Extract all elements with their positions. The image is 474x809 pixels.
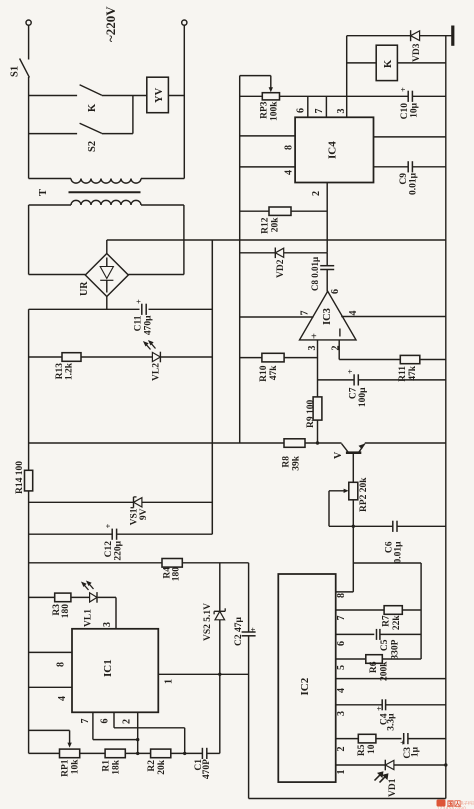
wire rail443 mid (305, 442, 342, 444)
capacitor C2 (242, 631, 256, 633)
resistor R8 (284, 439, 305, 448)
resistor R5 (358, 734, 376, 743)
capacitor C6 (392, 521, 394, 532)
junction RP2 node (352, 525, 355, 528)
wire IC2 pin8 (336, 591, 354, 593)
resistor R14 (25, 470, 33, 491)
svg-text:VL1: VL1 (84, 609, 94, 627)
wire S2 branch right (102, 133, 133, 135)
svg-text:6: 6 (336, 641, 347, 646)
svg-text:6: 6 (100, 719, 111, 724)
wire RP2 wiper (329, 490, 346, 492)
wire R4 left (29, 562, 162, 564)
potentiometer RP3 (262, 93, 279, 100)
svg-text:S1: S1 (10, 66, 21, 77)
wire C2 vertical bottom (248, 636, 250, 799)
junction VS2 pin1 (218, 673, 221, 676)
wire IC4 pin3 vertical (346, 36, 348, 118)
svg-text:+: + (311, 332, 317, 343)
svg-text:RP1: RP1 (61, 759, 71, 777)
capacitor C4 (381, 699, 383, 710)
wire IC1 pin8 (29, 651, 72, 653)
wire R12 left (240, 210, 269, 212)
potentiometer RP1 (60, 749, 80, 758)
wire R13 left (29, 356, 62, 358)
IC2 box (278, 574, 335, 782)
wire C7 right (358, 379, 445, 381)
wire RP3 right to C10 (280, 95, 409, 97)
capacitor C12 (111, 529, 113, 540)
wire VS1 right (142, 501, 212, 503)
svg-text:3: 3 (336, 109, 347, 114)
wire row RP1-R1 (80, 752, 105, 754)
wire C7 left (318, 379, 355, 381)
svg-text:100μ: 100μ (358, 387, 368, 407)
wire C3 right (408, 738, 446, 740)
wire C4 right (386, 704, 446, 706)
svg-text:VS2 5.1V: VS2 5.1V (203, 603, 213, 641)
capacitor C9 (407, 161, 409, 172)
svg-text:8: 8 (56, 662, 67, 667)
wire C6 left (353, 525, 392, 527)
resistor R4 (162, 559, 182, 568)
svg-text:IC2: IC2 (299, 677, 311, 695)
LED VL1 (96, 592, 98, 603)
svg-text:UR: UR (79, 281, 90, 296)
svg-text:~220V: ~220V (103, 6, 118, 42)
svg-text:R12: R12 (261, 217, 271, 234)
svg-text:R5: R5 (357, 744, 367, 756)
wire C6 right (397, 525, 446, 527)
svg-text:3: 3 (102, 622, 113, 627)
wire C10 right (412, 95, 445, 97)
svg-text:1.2k: 1.2k (65, 362, 75, 380)
svg-text:3: 3 (336, 711, 347, 716)
transformer T primary winding (71, 179, 141, 184)
wire VD2 left (240, 252, 276, 254)
wire C11 rail right (149, 308, 213, 310)
capacitor C1 (201, 748, 203, 759)
svg-text:T: T (38, 189, 49, 196)
svg-text:+: + (398, 740, 408, 745)
svg-text:330P: 330P (391, 639, 401, 659)
junction row pin6 (183, 752, 186, 755)
svg-text:5: 5 (336, 665, 347, 670)
relay K box (376, 45, 397, 80)
svg-text:+: + (134, 299, 144, 304)
wire VS1 left (29, 501, 134, 503)
svg-text:39k: 39k (292, 455, 302, 471)
watermark (437, 800, 446, 807)
capacitor C8 (320, 265, 334, 267)
wire secondary right down (183, 205, 185, 275)
wire K coil left (347, 62, 377, 64)
wire row left (29, 752, 60, 754)
wire right rail (445, 36, 447, 799)
svg-text:R10: R10 (259, 365, 269, 382)
svg-text:R8: R8 (282, 456, 292, 468)
wire R7 right (402, 609, 421, 611)
wire IC4 pin2 vertical (326, 183, 328, 253)
wire R11 right (420, 359, 446, 361)
svg-text:R6: R6 (369, 661, 379, 673)
diode VD3 (410, 30, 412, 41)
svg-text:4: 4 (348, 311, 359, 316)
svg-text:6: 6 (296, 108, 307, 113)
wire right mains down to transformer (183, 25, 185, 178)
wire IC4 right pin (374, 136, 446, 138)
wire IC2 pin5 (336, 658, 366, 660)
wire secondary right lead (141, 204, 184, 206)
wire IC2 pin4 (336, 678, 446, 680)
svg-text:K: K (383, 59, 394, 68)
resistor R1 (105, 749, 125, 758)
svg-text:C5: C5 (380, 639, 390, 651)
svg-text:0.01μ: 0.01μ (409, 172, 419, 195)
svg-text:8: 8 (284, 145, 295, 150)
wire VD3 right (420, 35, 452, 37)
svg-text:47k: 47k (269, 365, 279, 381)
svg-text:2: 2 (311, 191, 322, 196)
junction row pin2 (136, 752, 139, 755)
svg-text:+: + (398, 87, 408, 92)
svg-text:R2: R2 (147, 760, 157, 772)
svg-text:20k: 20k (271, 217, 281, 233)
svg-text:1: 1 (164, 679, 175, 684)
wire R9 bottom (317, 420, 319, 443)
wire terminal-left to S1 (28, 25, 30, 59)
svg-text:7: 7 (80, 719, 91, 724)
svg-text:7: 7 (314, 109, 325, 114)
svg-text:C11: C11 (134, 315, 144, 331)
svg-text:1μ: 1μ (411, 746, 421, 757)
wire C9 right (412, 166, 445, 168)
solenoid YV box (147, 77, 169, 113)
wire rail443 right (365, 442, 446, 444)
svg-text:47k: 47k (408, 365, 418, 381)
wire VL1 right (98, 596, 116, 598)
wire K branch left (29, 95, 78, 97)
svg-text:100k: 100k (270, 101, 280, 121)
label IC3 minus input (339, 329, 341, 337)
svg-text:K: K (87, 103, 98, 112)
terminal right (182, 20, 187, 25)
contact S2 blade (80, 123, 102, 133)
wire VL2 right (161, 356, 212, 358)
svg-text:20k: 20k (157, 759, 167, 775)
wire IC4 pin6 stub (307, 96, 309, 117)
wire S2 to K junction (132, 96, 134, 134)
wire IC2 pin6 (336, 633, 375, 635)
wire RP1 wiper (29, 729, 70, 731)
resistor R6 (366, 655, 383, 664)
svg-text:3.3μ: 3.3μ (387, 713, 397, 731)
wire RP2 bottom (352, 500, 354, 592)
wire row C1 right (207, 752, 220, 754)
resistor R12 (269, 207, 291, 215)
wire S2 branch left (29, 133, 78, 135)
wire mid vertical rail (211, 240, 213, 534)
resistor R9 (313, 397, 322, 420)
svg-text:VD3: VD3 (412, 43, 422, 62)
svg-text:3: 3 (307, 346, 318, 351)
zener VS1 (133, 497, 135, 508)
resistor R2 (151, 749, 171, 758)
svg-text:10k: 10k (71, 759, 81, 775)
svg-text:10: 10 (367, 744, 377, 754)
svg-text:470P: 470P (202, 759, 212, 779)
wire IC1 pin6 (113, 712, 115, 728)
wire secondary right to bridge (128, 274, 184, 276)
svg-text:C12: C12 (104, 541, 114, 558)
wire K coil right (397, 62, 445, 64)
potentiometer RP2 (349, 482, 358, 500)
junction VD1 rail (444, 763, 447, 766)
LED VL2 (159, 352, 161, 363)
svg-text:+: + (103, 524, 113, 529)
wire IC3 pin7 (240, 316, 314, 318)
svg-text:VD1: VD1 (388, 778, 398, 797)
wire K branch to YV (102, 95, 147, 97)
svg-text:RP3: RP3 (260, 101, 270, 119)
wire row R2-C1 (171, 752, 203, 754)
svg-text:+: + (374, 706, 384, 711)
svg-text:10μ: 10μ (410, 102, 420, 118)
wire R6 right (382, 658, 421, 660)
svg-text:0.01μ: 0.01μ (394, 541, 404, 564)
capacitor C3 (403, 733, 405, 744)
wire IC4 pin4 (240, 166, 295, 168)
svg-text:2: 2 (122, 719, 133, 724)
wire base down to RP2 (352, 454, 354, 482)
svg-text:470μ: 470μ (144, 315, 154, 335)
junction R9 rail (316, 441, 319, 444)
contact K blade (80, 85, 102, 96)
svg-text:180: 180 (61, 604, 71, 619)
svg-text:180: 180 (172, 567, 182, 582)
svg-text:C8 0.01μ: C8 0.01μ (310, 257, 320, 291)
terminal left (26, 20, 31, 25)
wire secondary left down (28, 205, 30, 275)
wire IC3 pin4 (341, 316, 446, 318)
wire R4 right (182, 562, 248, 564)
transistor V (346, 451, 361, 454)
wire RP3 wiper (240, 75, 271, 77)
wire IC3 pin2 vertical (338, 340, 340, 360)
junction pin7 pin2 (136, 738, 139, 741)
svg-text:+: + (248, 627, 258, 632)
wire IC1 pin4 (29, 686, 72, 688)
svg-text:S2: S2 (87, 141, 98, 152)
wire R10 left (240, 357, 262, 359)
wire R12 right (291, 210, 327, 212)
resistor R11 (400, 355, 420, 363)
svg-text:IC4: IC4 (327, 141, 339, 159)
svg-text:C2 47μ: C2 47μ (234, 617, 244, 646)
wire bottom rail (249, 798, 446, 800)
wire IC1 pin3 vertical (115, 597, 117, 628)
svg-text:8: 8 (336, 593, 347, 598)
wire R5 right (376, 738, 402, 740)
wire left mains down to transformer (28, 77, 30, 179)
wire C11 rail left (29, 308, 140, 310)
svg-text:C9: C9 (399, 173, 409, 185)
wire IC2 pin7 (336, 609, 384, 611)
wire V+ rail (107, 239, 446, 241)
svg-text:V: V (333, 451, 344, 459)
resistor R3 (55, 593, 71, 602)
wire R3 left (29, 596, 55, 598)
svg-text:VD2: VD2 (276, 259, 286, 278)
capacitor C11 (141, 304, 143, 315)
wire IC4 pin8 (240, 135, 295, 137)
svg-text:2: 2 (336, 747, 347, 752)
svg-text:YV: YV (154, 87, 165, 103)
svg-text:C7: C7 (349, 387, 359, 399)
svg-text:7: 7 (300, 311, 311, 316)
wire R7 link (353, 562, 421, 564)
wire IC4 pin7 stub (325, 96, 327, 117)
bridge rectifier UR (85, 254, 128, 297)
capacitor C10 (407, 91, 409, 102)
resistor R10 (262, 353, 284, 362)
wire C12 right (117, 533, 213, 535)
svg-text:7: 7 (336, 616, 347, 621)
wire secondary left to bridge (29, 274, 86, 276)
wire IC2 pin3 (336, 704, 382, 706)
svg-text:+: + (345, 369, 355, 374)
transformer core (69, 191, 141, 193)
svg-text:1: 1 (336, 770, 347, 775)
svg-text:RP2 20k: RP2 20k (359, 477, 369, 512)
wire IC1 pin1 (158, 673, 248, 675)
wire C5 right (380, 633, 421, 635)
wire VD1 right (394, 764, 446, 766)
wire YV to right mains (168, 95, 184, 97)
svg-text:R7: R7 (382, 615, 392, 627)
wire C9 left (374, 166, 409, 168)
wire left rail middle (28, 309, 30, 470)
wire primary right lead (141, 178, 184, 180)
svg-text:9V: 9V (139, 508, 149, 520)
IC1 box (72, 629, 158, 713)
wire C2 vertical top (248, 563, 250, 632)
svg-text:R9 100: R9 100 (306, 400, 316, 428)
svg-text:220μ: 220μ (114, 540, 124, 560)
svg-text:18k: 18k (112, 759, 122, 775)
wire IC3 pin3 vertical upper (317, 340, 319, 397)
wire IC1 pin2 (137, 712, 139, 753)
IC4 box (295, 117, 373, 182)
svg-text:VS1: VS1 (130, 508, 140, 525)
resistor R7 (384, 606, 402, 615)
svg-text:4: 4 (57, 696, 68, 701)
zener VS2 (214, 610, 225, 612)
transformer secondary winding (71, 200, 141, 205)
wire row R1-R2 (125, 752, 150, 754)
op-amp IC3 (300, 291, 357, 340)
capacitor C7 (353, 374, 355, 385)
wire bridge bottom stem (106, 297, 108, 310)
wire bridge top stem (106, 240, 108, 254)
svg-text:R14 100: R14 100 (15, 461, 25, 494)
wire IC1 pin7 (92, 712, 94, 739)
svg-text:6: 6 (330, 289, 341, 294)
terminal bar top right (451, 26, 454, 46)
svg-text:4: 4 (336, 688, 347, 693)
svg-text:IC1: IC1 (102, 659, 114, 677)
switch S1 (20, 59, 30, 78)
wire IC2 pin2 (336, 738, 359, 740)
wire R3 to VL1 (71, 596, 90, 598)
svg-text:C10: C10 (400, 103, 410, 120)
svg-text:VL2: VL2 (152, 363, 162, 381)
wire C12 left (29, 533, 113, 535)
wire rail443 left (29, 442, 284, 444)
wire IC2 pin1 (336, 764, 386, 766)
wire left rail below R14 (28, 491, 30, 754)
wire VD3 left (347, 35, 411, 37)
wire VS2 vertical bottom (219, 620, 221, 754)
svg-text:22k: 22k (392, 615, 402, 631)
svg-text:R13: R13 (55, 363, 65, 380)
wire secondary left lead (29, 204, 71, 206)
wire VS2 vertical top (219, 563, 221, 612)
photodiode VD1 (384, 760, 386, 771)
resistor R13 (62, 353, 81, 362)
wire R11 left (339, 359, 400, 361)
wire VD2 right (284, 252, 328, 254)
svg-text:IC3: IC3 (322, 308, 333, 325)
svg-text:2: 2 (331, 346, 342, 351)
wire R10 right (284, 357, 317, 359)
diode VD2 (274, 248, 276, 259)
svg-text:R1: R1 (102, 760, 112, 772)
wire RP3 left (240, 95, 263, 97)
svg-text:1234567890: 1234567890 (437, 806, 466, 809)
capacitor C5 (376, 629, 378, 640)
wire left vertical rail x240 (239, 76, 241, 443)
wire primary left lead (29, 178, 71, 180)
svg-text:4: 4 (284, 170, 295, 175)
wire R13 to VL2 (81, 356, 152, 358)
